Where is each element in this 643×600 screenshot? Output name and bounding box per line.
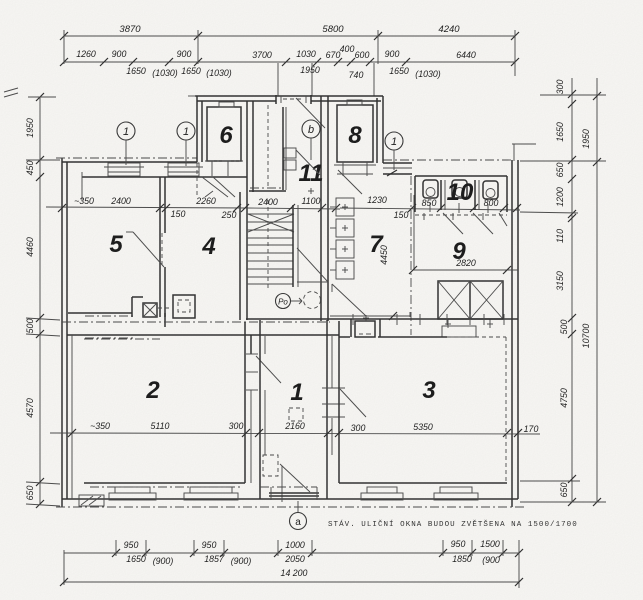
svg-text:170: 170 [524, 424, 539, 434]
svg-text:1: 1 [391, 136, 397, 148]
room 2 west inner line [71, 335, 73, 499]
room 11 cross mark [308, 190, 314, 192]
svg-text:1950: 1950 [300, 65, 320, 75]
svg-text:10700: 10700 [581, 324, 591, 349]
svg-text:900: 900 [112, 49, 127, 59]
elevator bottom marks [447, 319, 449, 328]
svg-text:300: 300 [229, 421, 244, 431]
svg-text:1857: 1857 [204, 554, 225, 564]
WC front dashed lines [415, 214, 507, 216]
svg-text:650: 650 [25, 486, 35, 501]
WC stall divider 2 [474, 180, 476, 210]
entrance door swing [296, 98, 325, 128]
door room2-room1 [246, 353, 258, 355]
room 3 west wall [338, 321, 340, 483]
svg-text:1100: 1100 [302, 196, 321, 206]
svg-text:1230: 1230 [367, 195, 387, 205]
svg-text:4: 4 [201, 233, 215, 260]
stair east rail [292, 205, 294, 287]
svg-text:1650: 1650 [126, 554, 146, 564]
svg-text:150: 150 [394, 210, 409, 220]
tower top wall [195, 95, 383, 97]
Po arrow [291, 300, 302, 302]
room 2 top wall dashdot [84, 338, 160, 340]
svg-text:4750: 4750 [559, 388, 569, 408]
left dimension line [39, 97, 41, 504]
room 11 door jamb shelves [284, 148, 296, 158]
svg-text:14 200: 14 200 [281, 568, 308, 578]
svg-text:(900: (900 [482, 555, 500, 565]
svg-text:1260: 1260 [76, 49, 96, 59]
bottom outer wall [62, 498, 518, 500]
right outer wall [511, 160, 513, 507]
svg-text:Po: Po [278, 298, 288, 307]
radiator boxes column [336, 198, 354, 216]
svg-text:3: 3 [422, 377, 436, 404]
room 5 bottom wall [68, 312, 132, 314]
stair dashdot mid [250, 187, 282, 189]
hall door swing lower [332, 284, 366, 316]
svg-text:670: 670 [326, 50, 341, 60]
WC outer box [415, 175, 507, 177]
room 6 shaft [207, 107, 241, 161]
svg-text:(900): (900) [153, 556, 174, 566]
svg-text:300: 300 [555, 80, 565, 95]
tower left wall dashed continuation [196, 163, 198, 198]
WC vertical dashes below toilets [429, 203, 431, 212]
room 7 chimney box [355, 321, 375, 337]
tower entrance door [275, 95, 277, 104]
svg-text:950: 950 [124, 540, 139, 550]
window W5 [440, 487, 472, 493]
dimension row 1 overall line [64, 35, 515, 37]
svg-text:(1030): (1030) [415, 69, 440, 79]
row1-row2 connectors [63, 30, 65, 64]
interior dim line lower [50, 433, 540, 434]
hall dashed box upper [289, 408, 303, 421]
svg-text:110: 110 [555, 229, 565, 243]
stair run diagonals [248, 214, 294, 232]
stair center dashed lower [267, 200, 269, 290]
hall dashed box lower [263, 455, 278, 476]
svg-text:500: 500 [25, 319, 35, 334]
tower left wall [196, 96, 198, 162]
svg-text:950: 950 [451, 539, 466, 549]
room 9 bottom dim line [413, 269, 518, 271]
svg-text:2400: 2400 [110, 196, 131, 206]
svg-text:850: 850 [422, 198, 437, 208]
svg-text:500: 500 [559, 320, 569, 335]
svg-text:650: 650 [559, 483, 569, 498]
stairwell west wall upper [246, 101, 248, 192]
window in top wall left b [168, 163, 199, 176]
upper shaft east wall [282, 107, 284, 190]
room 8 window sill below [334, 164, 376, 166]
section circle 1a [117, 122, 135, 140]
svg-text:10: 10 [447, 179, 474, 206]
left outer wall [61, 158, 63, 507]
svg-text:1850: 1850 [452, 554, 472, 564]
svg-text:1030: 1030 [296, 49, 316, 59]
svg-text:1: 1 [183, 126, 189, 138]
svg-text:(900): (900) [231, 556, 252, 566]
room 6 bottom dashdot [205, 160, 243, 162]
middle band long line [246, 318, 518, 320]
svg-text:8: 8 [348, 122, 362, 149]
right-wing top wall pieces [383, 162, 412, 164]
svg-text:1950: 1950 [581, 129, 591, 149]
WC stall divider 1 [440, 180, 442, 210]
wall slash mark near room7 [389, 312, 397, 320]
toilet 2 [452, 180, 467, 198]
svg-text:900: 900 [177, 49, 192, 59]
window W3 entrance sill [260, 486, 317, 488]
svg-text:1650: 1650 [555, 122, 565, 142]
svg-text:250: 250 [221, 210, 237, 220]
svg-text:800: 800 [484, 198, 499, 208]
stair treads [247, 213, 293, 215]
svg-text:b: b [308, 124, 314, 136]
right inner dimension line [571, 78, 573, 502]
svg-text:2820: 2820 [455, 258, 476, 268]
svg-text:1200: 1200 [555, 187, 565, 207]
window W2 [190, 487, 232, 493]
room 2 bottom wall [84, 482, 245, 484]
svg-text:4460: 4460 [25, 237, 35, 257]
svg-text:5800: 5800 [322, 24, 344, 35]
room 6 door swing [213, 177, 235, 197]
room 6 window sill below [211, 161, 213, 176]
corridor east wall [320, 96, 322, 321]
middle band dashdot [62, 321, 330, 323]
room 11 door swing [296, 150, 320, 175]
window W4 [367, 487, 397, 493]
toilet 1 [423, 180, 438, 198]
svg-text:3150: 3150 [555, 271, 565, 291]
bottom overall dim line 14 200 [64, 581, 519, 583]
svg-text:STÁV. ULIČNÍ OKNA BUDOU ZVĚTŠE: STÁV. ULIČNÍ OKNA BUDOU ZVĚTŠENA NA 1500… [328, 519, 578, 529]
svg-text:4570: 4570 [25, 398, 35, 418]
bottom window dim row line [64, 552, 519, 554]
svg-text:3870: 3870 [119, 24, 141, 35]
svg-text:1650: 1650 [126, 66, 146, 76]
corridor door swing to room 7 [297, 248, 328, 282]
hall east wall [326, 320, 328, 499]
svg-text:2160: 2160 [284, 421, 305, 431]
tower right wall [376, 98, 378, 163]
toilet 3 [483, 181, 498, 199]
svg-text:11: 11 [299, 160, 324, 187]
bottom row verticals [115, 540, 117, 556]
room 8 shaft [337, 105, 373, 162]
middle band vertical stubs [352, 314, 354, 325]
paper cut mark top left [4, 88, 18, 92]
svg-text:1650: 1650 [389, 66, 409, 76]
svg-text:~350: ~350 [90, 421, 110, 431]
wall room2-room1 [244, 322, 246, 483]
Po circle [276, 294, 291, 309]
window in top wall left a [108, 163, 140, 176]
svg-text:1650: 1650 [181, 66, 201, 76]
svg-text:4450: 4450 [379, 245, 389, 265]
svg-text:740: 740 [349, 70, 364, 80]
svg-text:300: 300 [351, 423, 366, 433]
room 3 top wall [339, 336, 350, 338]
svg-text:650: 650 [555, 163, 565, 178]
dashed circle [304, 292, 321, 309]
svg-text:~350: ~350 [74, 196, 94, 206]
svg-text:5110: 5110 [151, 421, 170, 431]
svg-text:1500: 1500 [480, 539, 500, 549]
door room1-room3 [322, 387, 345, 389]
small box below elevator [442, 326, 476, 337]
svg-text:150: 150 [171, 209, 186, 219]
svg-text:4240: 4240 [438, 24, 460, 35]
svg-text:2260: 2260 [195, 196, 216, 206]
svg-text:6440: 6440 [456, 50, 476, 60]
svg-text:400: 400 [340, 44, 355, 54]
hall entrance door swing [280, 464, 310, 492]
svg-text:450: 450 [25, 161, 35, 176]
stair center dashed line upper [267, 105, 269, 188]
top-left wing wall outer dashdot [56, 157, 197, 159]
svg-text:5350: 5350 [413, 422, 433, 432]
room 7 east dashdot boundary [410, 176, 412, 335]
svg-text:2400: 2400 [257, 197, 278, 207]
room 4 chimney box [173, 295, 195, 318]
top right corner mark [512, 143, 536, 145]
room 8 door swing [338, 170, 362, 194]
left extension marks [28, 96, 56, 98]
section circle 1c [385, 132, 403, 150]
bottom-left hatched box [79, 495, 104, 506]
svg-text:950: 950 [202, 540, 217, 550]
svg-text:1950: 1950 [25, 118, 35, 138]
svg-text:6: 6 [219, 122, 233, 149]
svg-text:5: 5 [109, 231, 123, 258]
elevator shaft double X box [438, 281, 503, 319]
interior dim line upper [46, 207, 247, 208]
svg-text:2: 2 [145, 377, 160, 404]
hall west wall [259, 320, 261, 499]
room5-4 bottom dashes [85, 315, 133, 317]
svg-text:1: 1 [290, 379, 303, 406]
room 3 bottom wall [339, 482, 507, 484]
right extension lines [540, 94, 606, 96]
svg-text:3700: 3700 [252, 50, 272, 60]
room 4 door swing top [202, 177, 228, 197]
section circle a [290, 513, 307, 530]
section circle 1b [177, 122, 195, 140]
svg-text:1000: 1000 [285, 540, 305, 550]
right-wing top wall dashdot [383, 159, 512, 161]
dimension row 2 line [64, 61, 515, 63]
svg-text:2050: 2050 [284, 554, 305, 564]
WC stall door swings [443, 213, 463, 234]
chimney X-box [143, 303, 157, 317]
stair landing line [249, 190, 286, 192]
room 7 bottom wall [330, 315, 411, 317]
top-left wing wall lines [62, 161, 197, 163]
svg-text:(1030): (1030) [206, 68, 231, 78]
window W1 [115, 487, 150, 493]
extension lines to tower [277, 63, 279, 96]
rooms 2-1 top wall [67, 334, 339, 336]
section circle b [302, 120, 320, 138]
stairwell west wall lower [239, 192, 241, 320]
svg-text:a: a [295, 517, 301, 528]
svg-text:900: 900 [385, 49, 400, 59]
svg-text:1: 1 [123, 126, 129, 138]
right outer dimension line [596, 78, 598, 502]
wall between rooms 5 and 4 [159, 177, 161, 317]
door swing room 5 [133, 232, 164, 267]
svg-text:600: 600 [355, 50, 370, 60]
room 3 east dashed wall [505, 337, 507, 483]
svg-text:(1030): (1030) [152, 68, 177, 78]
chimney dashes [158, 307, 172, 309]
